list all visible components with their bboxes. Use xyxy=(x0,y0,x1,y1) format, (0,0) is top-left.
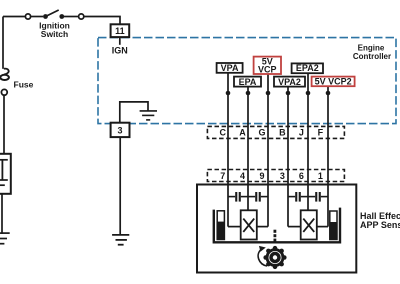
wire ignition to pin 11 xyxy=(84,17,120,25)
wire pin 11 stub xyxy=(119,37,121,45)
wire 5V VCP2 (pin F / 1) xyxy=(327,86,329,227)
label box 5V VCP xyxy=(254,56,281,74)
capacitor J-F wire xyxy=(308,196,328,198)
Hall Effect APP Sensor box xyxy=(197,185,356,273)
wire to hall element 1 right xyxy=(257,226,268,228)
wire controller ground xyxy=(120,102,148,123)
label box 5V VCP2 xyxy=(312,76,355,86)
fuse terminal circle xyxy=(1,89,7,95)
gear rotor icon xyxy=(266,248,285,267)
svg-text:F: F xyxy=(318,128,324,138)
svg-text:3: 3 xyxy=(117,125,122,135)
ignition switch contact dot left xyxy=(43,14,48,19)
label box EPA2 xyxy=(292,63,323,73)
svg-text:B: B xyxy=(279,128,286,138)
wire to hall element 2 left xyxy=(288,226,301,228)
svg-text:J: J xyxy=(299,128,304,138)
wire left rail upper xyxy=(2,17,4,69)
magnet right xyxy=(330,211,337,240)
ground battery xyxy=(0,233,10,244)
capacitor A-G plates xyxy=(255,192,257,202)
wire EPA (pin A / 4) xyxy=(247,87,249,211)
svg-text:G: G xyxy=(258,128,265,138)
svg-text:6: 6 xyxy=(299,171,304,181)
svg-text:VCP: VCP xyxy=(258,65,277,75)
svg-text:VPA2: VPA2 xyxy=(278,77,301,87)
junction dot 5V VCP2 xyxy=(326,91,331,96)
connector numbers dashed box xyxy=(207,170,344,182)
engine controller dashed box xyxy=(98,38,396,124)
wire EPA2 (pin J / 6) xyxy=(307,73,309,210)
svg-text:11: 11 xyxy=(115,26,125,36)
label box VPA2 xyxy=(274,77,305,87)
svg-text:3: 3 xyxy=(280,171,285,181)
svg-text:9: 9 xyxy=(259,171,264,181)
capacitor B-J plates xyxy=(295,192,297,202)
rotor bracket xyxy=(214,208,340,243)
battery xyxy=(0,154,11,194)
ignition switch blade xyxy=(46,10,59,17)
capacitor J-F plates xyxy=(315,192,317,202)
svg-text:5V VCP2: 5V VCP2 xyxy=(315,76,352,86)
rotation arrow xyxy=(258,246,267,266)
hall element X2 xyxy=(301,210,317,239)
wire battery feed top horizontal xyxy=(3,16,26,18)
wire VPA2 (pin B / 3) xyxy=(287,87,289,227)
pin 3 box xyxy=(111,123,130,137)
magnet left xyxy=(217,211,224,240)
svg-text:Controller: Controller xyxy=(353,52,391,61)
svg-text:IGN: IGN xyxy=(112,45,128,55)
svg-text:7: 7 xyxy=(220,171,225,181)
capacitor A-G wire xyxy=(248,196,268,198)
svg-text:4: 4 xyxy=(240,171,245,181)
ignition switch contact dot right xyxy=(59,14,64,19)
wire 5V VCP (pin G / 9) xyxy=(267,74,269,227)
wire to hall element 1 left xyxy=(228,226,241,228)
wire switch link xyxy=(30,16,43,18)
svg-text:EPA2: EPA2 xyxy=(296,63,319,73)
ground pin 3 xyxy=(112,235,129,245)
svg-text:Fuse: Fuse xyxy=(14,79,34,89)
label box EPA xyxy=(234,77,261,87)
pin 11 box xyxy=(111,24,130,37)
fuse F1 symbol xyxy=(4,69,9,75)
junction dot VPA2 xyxy=(286,91,291,96)
wire to hall element 2 right xyxy=(317,226,328,228)
hall element X1 xyxy=(241,210,257,239)
wire switch link right xyxy=(64,16,78,18)
wire pin 3 to ground xyxy=(119,137,121,235)
wire fuse to battery xyxy=(3,95,5,153)
junction dot 5V VCP xyxy=(266,91,271,96)
ignition switch terminal circle right xyxy=(79,14,84,19)
svg-text:1: 1 xyxy=(318,171,323,181)
ground controller internal xyxy=(140,111,157,120)
svg-text:Switch: Switch xyxy=(41,29,68,39)
capacitor C-A plates xyxy=(235,192,237,202)
svg-text:VPA: VPA xyxy=(221,63,239,73)
junction dot VPA xyxy=(226,91,231,96)
svg-text:APP Sensor: APP Sensor xyxy=(360,220,400,230)
wire battery to ground xyxy=(1,194,3,234)
connector letters dashed box xyxy=(207,126,344,138)
continuation dots xyxy=(274,230,277,233)
wire VPA (pin C / 7) xyxy=(227,73,229,227)
junction dot EPA xyxy=(246,91,251,96)
ignition switch terminal circle left xyxy=(25,14,30,19)
capacitor C-A wire xyxy=(228,196,248,198)
svg-text:C: C xyxy=(219,128,226,138)
junction dot EPA2 xyxy=(306,91,311,96)
capacitor B-J wire xyxy=(288,196,308,198)
svg-text:A: A xyxy=(239,128,246,138)
label box VPA xyxy=(217,63,243,73)
svg-text:EPA: EPA xyxy=(239,77,257,87)
